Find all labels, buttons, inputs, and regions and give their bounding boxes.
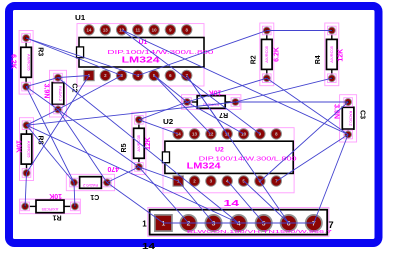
svg-text:AX/RC05: AX/RC05 bbox=[26, 54, 31, 71]
svg-text:1: 1 bbox=[142, 220, 147, 229]
svg-text:R3: R3 bbox=[37, 47, 44, 56]
svg-text:RAD/0.2: RAD/0.2 bbox=[348, 111, 353, 127]
svg-text:U1: U1 bbox=[75, 13, 85, 22]
svg-text:3.9N: 3.9N bbox=[333, 104, 340, 119]
svg-text:LM324: LM324 bbox=[187, 160, 221, 170]
svg-text:470: 470 bbox=[107, 165, 119, 172]
svg-text:R2: R2 bbox=[251, 55, 258, 64]
svg-text:14: 14 bbox=[224, 198, 240, 208]
svg-text:C3: C3 bbox=[359, 110, 366, 119]
svg-text:7: 7 bbox=[312, 220, 316, 227]
svg-text:6.2K: 6.2K bbox=[273, 47, 280, 62]
svg-text:AX/RC05: AX/RC05 bbox=[264, 45, 269, 62]
svg-text:RAD/0.2: RAD/0.2 bbox=[82, 183, 98, 188]
svg-text:LM324: LM324 bbox=[122, 54, 160, 64]
svg-text:12K: 12K bbox=[338, 49, 345, 62]
svg-text:AX/RC05: AX/RC05 bbox=[41, 207, 58, 212]
svg-text:AX/RC05: AX/RC05 bbox=[329, 45, 334, 62]
svg-text:11: 11 bbox=[135, 27, 140, 32]
svg-text:10: 10 bbox=[241, 132, 246, 137]
svg-text:R5: R5 bbox=[121, 143, 128, 152]
svg-text:13: 13 bbox=[103, 27, 108, 32]
svg-text:14: 14 bbox=[87, 27, 92, 32]
svg-text:R4: R4 bbox=[315, 55, 322, 64]
svg-text:3.9N: 3.9N bbox=[43, 84, 50, 99]
svg-text:10K: 10K bbox=[49, 192, 62, 199]
svg-text:AX/RC05: AX/RC05 bbox=[27, 141, 32, 158]
svg-text:14: 14 bbox=[176, 132, 181, 137]
svg-text:BLWCON.100/VH.TN1500/W.956.7: BLWCON.100/VH.TN1500/W.956.7 bbox=[187, 229, 333, 235]
svg-text:R7: R7 bbox=[219, 111, 228, 118]
svg-text:U2: U2 bbox=[215, 146, 224, 153]
svg-text:1: 1 bbox=[162, 220, 166, 227]
svg-text:R8: R8 bbox=[37, 136, 44, 145]
svg-text:RAD/0.2: RAD/0.2 bbox=[58, 86, 63, 102]
svg-text:C1: C1 bbox=[90, 193, 99, 200]
svg-text:U2: U2 bbox=[163, 117, 173, 126]
svg-text:14: 14 bbox=[142, 241, 155, 251]
svg-text:13: 13 bbox=[192, 132, 197, 137]
svg-text:10K: 10K bbox=[15, 140, 22, 153]
svg-text:10: 10 bbox=[152, 27, 157, 32]
svg-text:R1: R1 bbox=[53, 214, 62, 221]
svg-text:6.2K: 6.2K bbox=[10, 54, 17, 69]
